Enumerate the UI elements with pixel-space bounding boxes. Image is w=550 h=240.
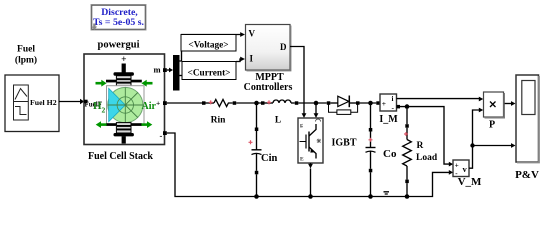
svg-text:<Current>: <Current> [188, 69, 231, 79]
svg-text:Fuel Cell Stack: Fuel Cell Stack [88, 151, 153, 162]
svg-text:V_M: V_M [458, 176, 482, 188]
svg-text:<Voltage>: <Voltage> [188, 41, 228, 51]
svg-text:E: E [300, 157, 304, 163]
svg-text:Rin: Rin [211, 116, 227, 126]
svg-text:+: + [455, 162, 459, 170]
svg-text:Load: Load [416, 153, 438, 163]
svg-text:2: 2 [102, 105, 106, 114]
svg-text:V: V [249, 29, 256, 39]
svg-text:Controllers: Controllers [244, 82, 293, 93]
svg-text:+: + [156, 99, 160, 108]
svg-text:-: - [160, 131, 163, 141]
svg-text:L: L [275, 116, 281, 126]
svg-text:D: D [280, 42, 287, 52]
svg-text:Ts = 5e-05 s.: Ts = 5e-05 s. [93, 17, 144, 28]
svg-text:I: I [250, 54, 254, 64]
svg-text:IGBT: IGBT [332, 137, 357, 148]
svg-text:Air: Air [142, 101, 157, 112]
svg-text:P&V: P&V [515, 169, 539, 181]
svg-text:Cin: Cin [261, 153, 278, 164]
svg-text:m: m [154, 65, 161, 75]
svg-text:Co: Co [383, 148, 397, 160]
svg-text:powergui: powergui [98, 40, 140, 51]
svg-text:(lpm): (lpm) [15, 55, 37, 66]
svg-text:g: g [300, 123, 303, 129]
svg-text:R: R [417, 141, 424, 151]
svg-text:P: P [489, 120, 495, 131]
svg-text:i: i [392, 95, 394, 103]
svg-text:+: + [382, 99, 386, 108]
svg-text:Fuel: Fuel [17, 45, 35, 55]
svg-text:Discrete,: Discrete, [101, 7, 138, 18]
svg-text:Fuel H2: Fuel H2 [30, 98, 57, 107]
svg-text:I_M: I_M [379, 114, 398, 125]
